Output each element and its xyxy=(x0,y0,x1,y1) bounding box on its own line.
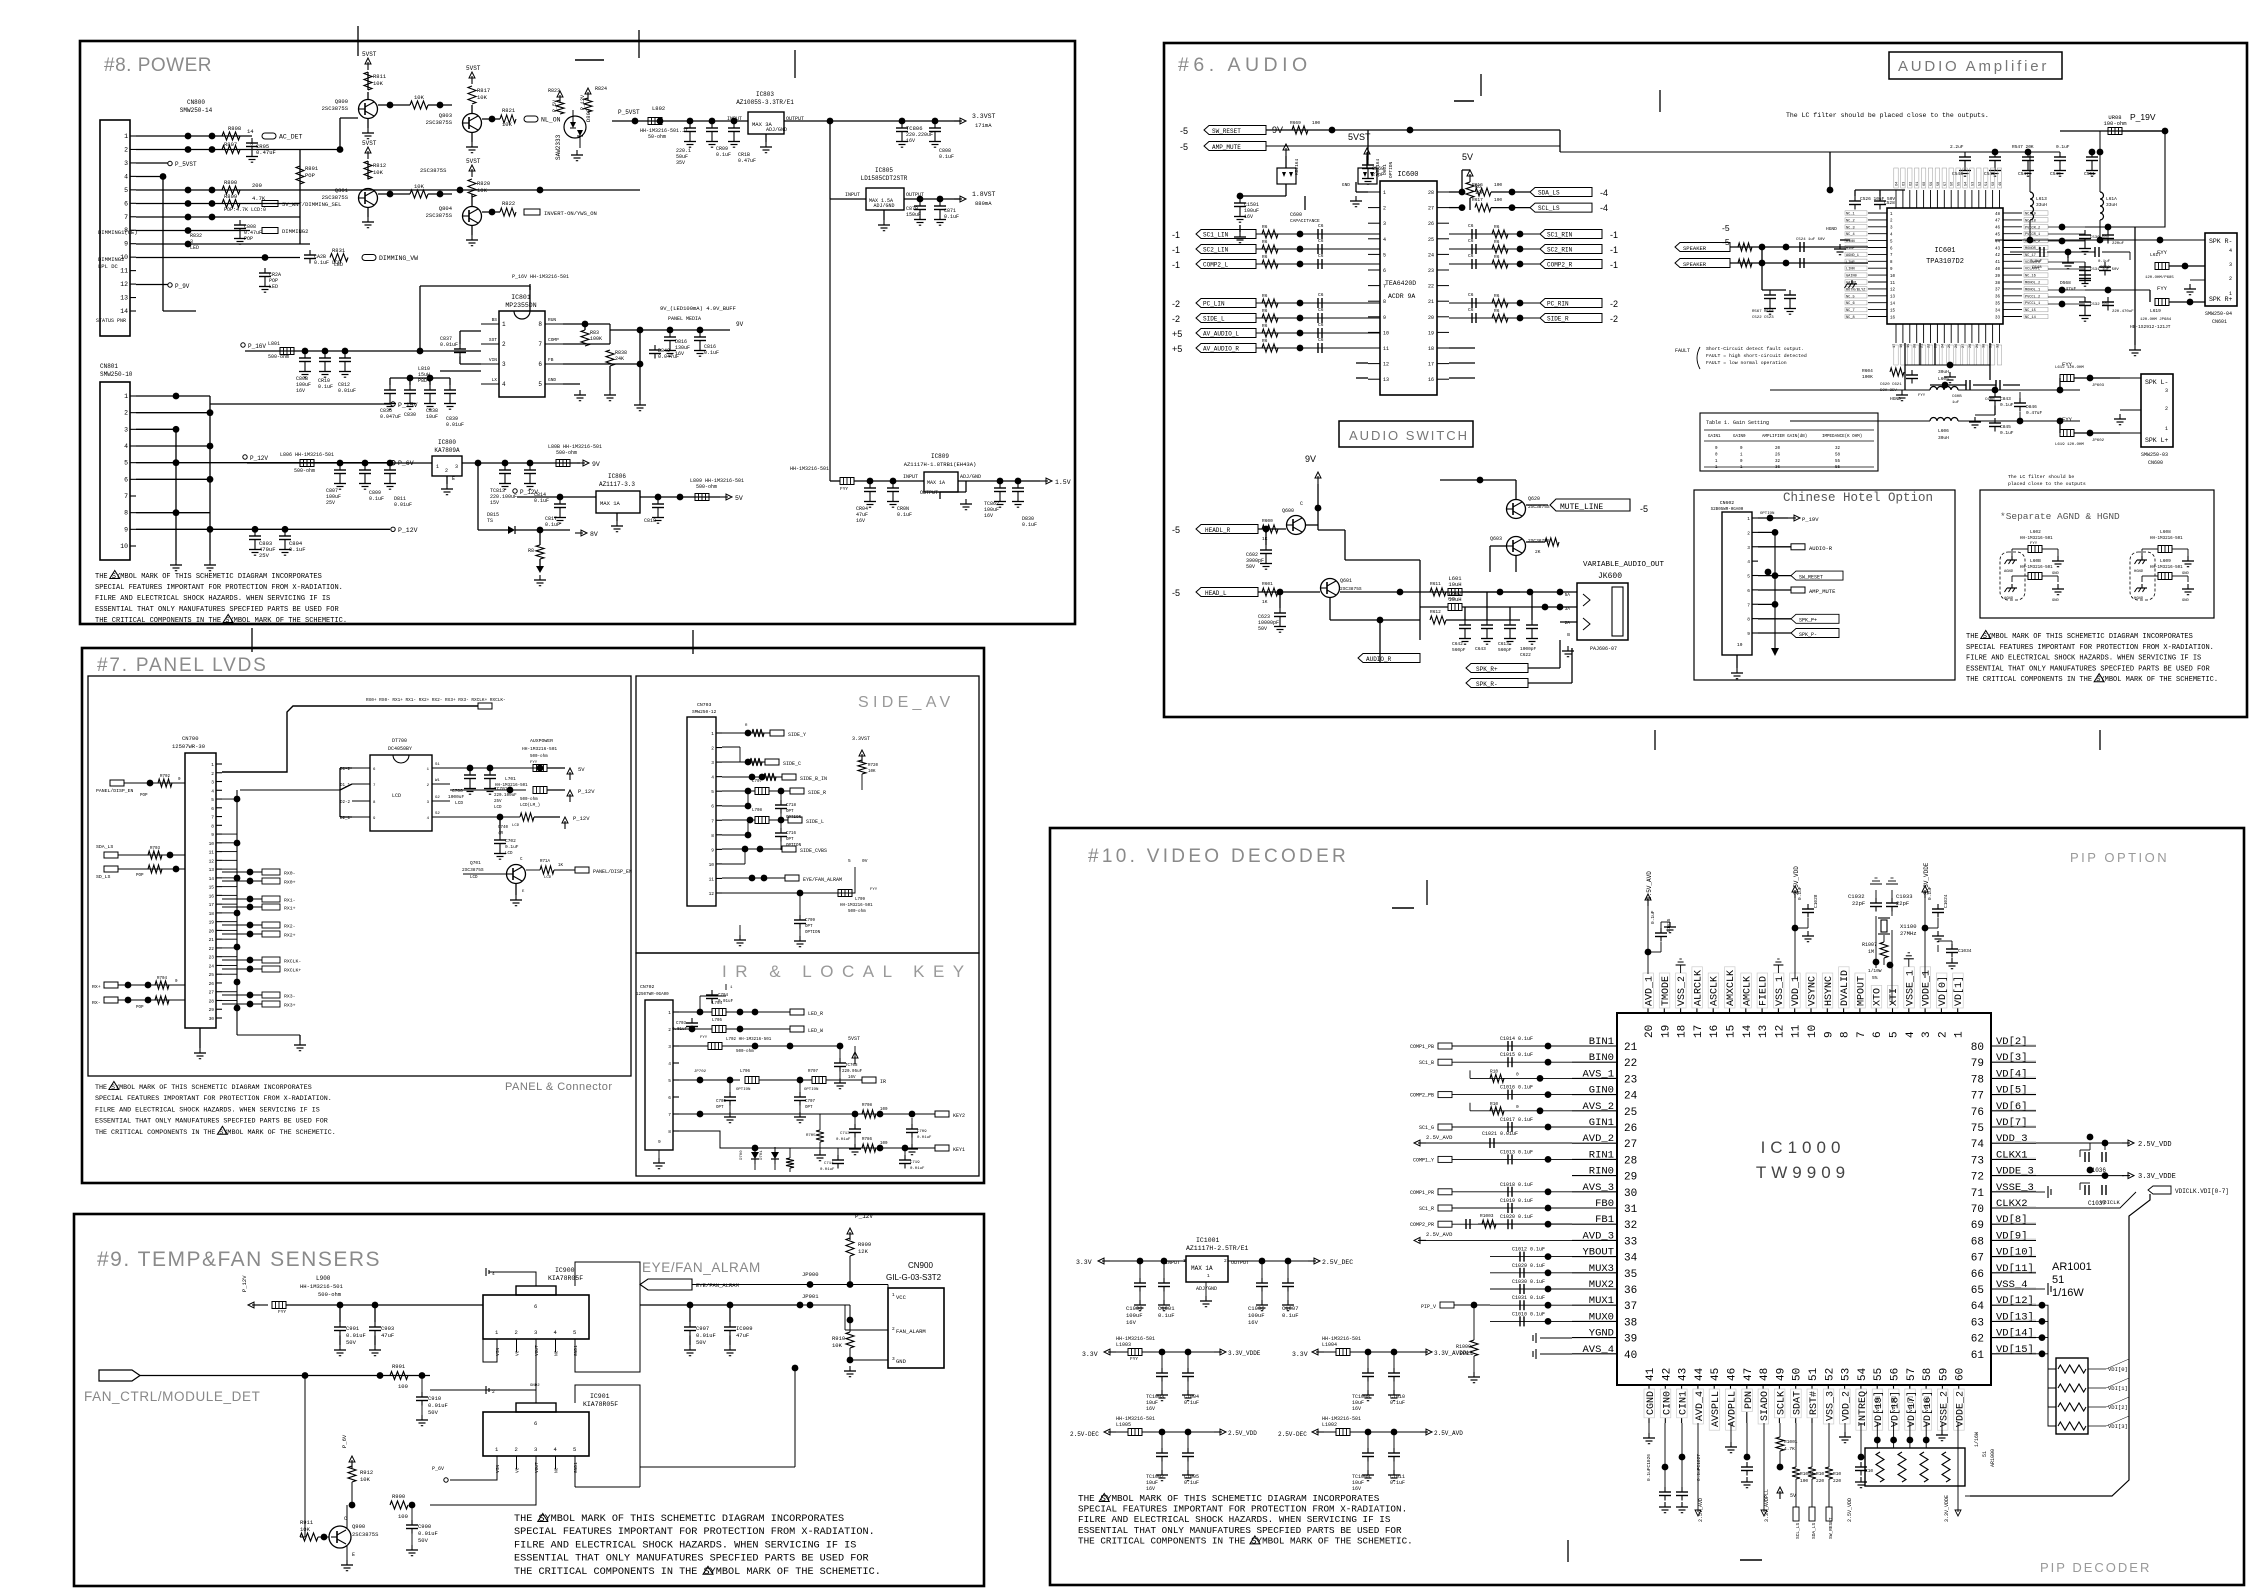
svg-text:220: 220 xyxy=(1816,1478,1824,1484)
AR1001 input wires xyxy=(2039,1302,2046,1309)
CN703 row3 SIDE_C xyxy=(722,761,765,763)
svg-text:0.1uF: 0.1uF xyxy=(1158,1312,1175,1319)
wire Q801 Q804 link xyxy=(378,193,410,195)
bottom VSS gnd xyxy=(1844,1423,1846,1432)
svg-text:VD[6]: VD[6] xyxy=(1996,1101,2028,1113)
capacitor CR2A xyxy=(264,268,266,273)
resistor between Q800 Q803 xyxy=(378,104,410,106)
svg-text:R616: R616 xyxy=(1472,182,1483,188)
svg-text:L60B: L60B xyxy=(2030,558,2041,564)
svg-text:AV_AUDIO_R: AV_AUDIO_R xyxy=(1203,346,1239,353)
svg-text:10: 10 xyxy=(1383,330,1389,336)
svg-text:C1012 0.1uF: C1012 0.1uF xyxy=(1512,1247,1545,1253)
svg-text:VOUT: VOUT xyxy=(534,1462,540,1473)
svg-text:C551: C551 xyxy=(2084,171,2095,177)
capacitor TC708 xyxy=(837,1043,844,1050)
svg-text:CIN1: CIN1 xyxy=(1679,1391,1690,1415)
wire IC1001 input xyxy=(1102,1260,1110,1262)
svg-text:VSSE_3: VSSE_3 xyxy=(1996,1182,2034,1194)
svg-text:27pF: 27pF xyxy=(1372,172,1384,178)
svg-text:8: 8 xyxy=(1840,1031,1852,1038)
svg-text:62: 62 xyxy=(1909,182,1913,186)
resistor R820 vertical xyxy=(468,179,476,197)
capacitor C808o xyxy=(934,123,936,128)
svg-text:16V: 16V xyxy=(1352,1486,1361,1492)
svg-text:PVCCL_2: PVCCL_2 xyxy=(2025,295,2040,299)
svg-text:22: 22 xyxy=(209,946,215,952)
svg-text:58: 58 xyxy=(1922,1368,1934,1381)
capacitor C709 xyxy=(799,893,801,915)
svg-text:Q603: Q603 xyxy=(1490,536,1502,542)
svg-text:5: 5 xyxy=(711,789,714,795)
svg-text:5: 5 xyxy=(124,460,128,467)
svg-text:SIDE_R: SIDE_R xyxy=(1547,316,1569,323)
svg-text:48: 48 xyxy=(1995,213,2001,217)
svg-text:71: 71 xyxy=(1971,1188,1985,1200)
svg-text:50V: 50V xyxy=(418,1537,429,1544)
svg-text:3: 3 xyxy=(711,760,714,766)
svg-text:47: 47 xyxy=(1995,220,2001,224)
svg-text:RX3+: RX3+ xyxy=(284,1003,296,1009)
svg-text:LCD: LCD xyxy=(544,876,552,880)
svg-text:AMP_MUTE: AMP_MUTE xyxy=(1809,588,1836,595)
svg-text:SD_LS: SD_LS xyxy=(96,874,111,880)
svg-text:CGND: CGND xyxy=(1646,1391,1657,1415)
svg-text:PVCCR_2: PVCCR_2 xyxy=(2025,226,2040,230)
svg-text:AVS_2: AVS_2 xyxy=(1582,1101,1614,1113)
svg-text:5: 5 xyxy=(668,1078,671,1084)
svg-text:P_19V: P_19V xyxy=(2130,112,2156,122)
svg-text:R809: R809 xyxy=(224,193,237,200)
svg-text:AGND: AGND xyxy=(2004,597,2014,601)
transistor Q801 xyxy=(359,189,378,208)
svg-text:HH-1M3216-501: HH-1M3216-501 xyxy=(790,466,829,472)
wires switch area xyxy=(1318,529,1345,531)
svg-text:24: 24 xyxy=(1428,252,1434,258)
svg-text:26: 26 xyxy=(1955,344,1959,348)
svg-text:AVS_3: AVS_3 xyxy=(1582,1182,1614,1194)
svg-text:TW9909: TW9909 xyxy=(1756,1163,1850,1182)
svg-text:38: 38 xyxy=(1624,1317,1637,1329)
svg-text:40: 40 xyxy=(1995,268,2001,272)
wires CN801 rows xyxy=(136,395,210,397)
crystal caps C1032 C1033 xyxy=(1875,898,1877,903)
svg-text:ESSENTIAL THAT ONLY MANUFATURE: ESSENTIAL THAT ONLY MANUFATURES SPECFIED… xyxy=(1078,1525,1402,1536)
svg-text:C6: C6 xyxy=(1468,253,1474,259)
svg-text:RX1-: RX1- xyxy=(284,898,296,904)
svg-text:41: 41 xyxy=(1995,261,2001,265)
svg-text:3.3V: 3.3V xyxy=(1292,1351,1308,1358)
panel #9 border xyxy=(74,1214,984,1586)
svg-text:PANEL/DISP_EN: PANEL/DISP_EN xyxy=(96,788,134,794)
svg-text:POP: POP xyxy=(136,874,144,878)
svg-text:AVD_2: AVD_2 xyxy=(1582,1133,1614,1145)
svg-text:C1028: C1028 xyxy=(1813,894,1819,908)
IC600 bottom rows xyxy=(1449,347,1475,349)
svg-text:GND: GND xyxy=(2052,599,2060,603)
svg-text:POP: POP xyxy=(140,794,148,798)
svg-text:L619: L619 xyxy=(2150,308,2161,314)
svg-text:D568: D568 xyxy=(2060,280,2071,286)
svg-text:2: 2 xyxy=(1383,206,1386,212)
svg-text:13: 13 xyxy=(209,867,215,873)
svg-text:C544: C544 xyxy=(1952,171,1963,177)
svg-text:0.1uF: 0.1uF xyxy=(2056,144,2070,150)
svg-text:R801: R801 xyxy=(305,165,319,172)
svg-text:AZ1117H-2.5TR/E1: AZ1117H-2.5TR/E1 xyxy=(1186,1245,1249,1252)
svg-text:28: 28 xyxy=(1624,1155,1637,1167)
svg-text:33: 33 xyxy=(1995,316,2001,320)
svg-text:COMP1_PR: COMP1_PR xyxy=(1410,1190,1434,1196)
svg-text:NC: NC xyxy=(554,1350,560,1356)
svg-text:10uH: 10uH xyxy=(1448,581,1461,588)
svg-text:VD[8]: VD[8] xyxy=(1996,1214,2028,1226)
IC1000 bottom pins xyxy=(1648,1385,1650,1423)
svg-text:HH-1M3216-501: HH-1M3216-501 xyxy=(2020,537,2053,541)
svg-text:OPTION: OPTION xyxy=(805,931,821,935)
svg-text:C830: C830 xyxy=(404,412,416,418)
svg-text:NC_2: NC_2 xyxy=(1846,219,1855,223)
svg-text:5VST: 5VST xyxy=(466,65,481,72)
svg-text:R612: R612 xyxy=(1430,609,1441,615)
flags RX bottom left xyxy=(104,982,118,988)
svg-text:15: 15 xyxy=(1890,309,1896,313)
svg-text:C903: C903 xyxy=(381,1325,394,1332)
svg-text:GND: GND xyxy=(1342,182,1350,188)
svg-text:JP602: JP602 xyxy=(2092,439,2105,443)
svg-text:23: 23 xyxy=(1624,1074,1637,1086)
svg-text:IC600: IC600 xyxy=(1397,171,1418,179)
inner box PANEL Connector xyxy=(88,676,631,1076)
svg-text:3: 3 xyxy=(502,361,506,368)
svg-text:JP901: JP901 xyxy=(802,1293,819,1300)
svg-text:55: 55 xyxy=(1958,182,1962,186)
svg-text:VIN: VIN xyxy=(489,357,497,363)
bead UR08 xyxy=(2108,128,2122,135)
wire P_19V rail down xyxy=(2135,131,2165,227)
svg-text:COMP2_R: COMP2_R xyxy=(1547,262,1573,269)
capacitor C700 xyxy=(469,770,471,775)
jumper JP901 xyxy=(807,1302,814,1309)
svg-text:3.3V: 3.3V xyxy=(1076,1259,1092,1266)
svg-text:C716: C716 xyxy=(786,832,797,836)
svg-text:2: 2 xyxy=(515,1329,518,1336)
svg-text:R824: R824 xyxy=(595,86,607,92)
svg-text:IMPEDANCE(K OHM): IMPEDANCE(K OHM) xyxy=(1822,434,1862,439)
capacitor CR05 xyxy=(251,138,253,143)
svg-text:43: 43 xyxy=(1995,247,2001,251)
svg-text:R669: R669 xyxy=(1290,120,1301,126)
svg-text:VD[12]: VD[12] xyxy=(1996,1295,2034,1307)
svg-text:35V: 35V xyxy=(676,160,685,166)
svg-text:0V: 0V xyxy=(862,858,868,864)
vertical taps row8 xyxy=(789,1148,791,1158)
svg-text:SPK L-: SPK L- xyxy=(2145,379,2168,386)
svg-text:0.1uFC1026: 0.1uFC1026 xyxy=(1646,1454,1652,1481)
svg-text:24: 24 xyxy=(1941,344,1945,348)
svg-text:VARIABLE_AUDIO_OUT: VARIABLE_AUDIO_OUT xyxy=(1583,561,1665,569)
svg-text:ASCLK: ASCLK xyxy=(1710,976,1721,1006)
svg-text:16V: 16V xyxy=(1146,1406,1155,1412)
svg-text:R6: R6 xyxy=(1262,338,1268,344)
svg-text:37: 37 xyxy=(1624,1301,1637,1313)
svg-text:RX2-: RX2- xyxy=(284,924,296,930)
panel #6 AUDIO border xyxy=(1164,43,2247,717)
svg-text:DIMMING2: DIMMING2 xyxy=(98,256,124,263)
svg-text:R6: R6 xyxy=(1262,323,1268,329)
svg-text:IC900: IC900 xyxy=(555,1267,575,1274)
svg-text:SPK_P+: SPK_P+ xyxy=(1799,618,1817,624)
svg-text:7: 7 xyxy=(711,818,714,824)
svg-text:*Separate AGND & HGND: *Separate AGND & HGND xyxy=(2000,511,2120,522)
svg-text:NC_1: NC_1 xyxy=(1846,213,1855,217)
IC900 pin wires xyxy=(483,1305,497,1362)
svg-text:25: 25 xyxy=(1948,344,1952,348)
wire COMP FB xyxy=(563,343,610,345)
svg-text:NC_5: NC_5 xyxy=(1846,295,1855,299)
svg-text:2SC3875S: 2SC3875S xyxy=(420,167,447,174)
svg-text:0.1uF: 0.1uF xyxy=(1022,522,1037,528)
svg-text:P_12V: P_12V xyxy=(573,815,590,822)
svg-text:8: 8 xyxy=(711,833,714,839)
svg-text:VSS_3: VSS_3 xyxy=(1825,1391,1836,1421)
resistor R817 vertical xyxy=(468,86,476,104)
svg-text:FAN_CTRL/MODULE_DET: FAN_CTRL/MODULE_DET xyxy=(84,1389,260,1404)
svg-text:C6: C6 xyxy=(1318,337,1324,343)
svg-text:VD[1]: VD[1] xyxy=(1953,976,1965,1006)
svg-text:C1034: C1034 xyxy=(1958,948,1972,954)
caps on speaker lines xyxy=(1799,242,1801,252)
svg-text:4: 4 xyxy=(1905,1031,1917,1038)
power 5VST Q800 xyxy=(367,62,369,70)
svg-text:3.3V_VDDE: 3.3V_VDDE xyxy=(1944,1495,1950,1522)
svg-text:12: 12 xyxy=(1890,289,1896,293)
svg-text:C845: C845 xyxy=(2000,424,2011,430)
svg-text:16: 16 xyxy=(1709,1025,1721,1038)
svg-text:0.1uF: 0.1uF xyxy=(2000,430,2014,436)
svg-text:50: 50 xyxy=(1992,182,1996,186)
svg-text:C900: C900 xyxy=(418,1523,431,1530)
svg-text:34: 34 xyxy=(1995,309,2001,313)
svg-text:C6: C6 xyxy=(1318,253,1324,259)
svg-text:11: 11 xyxy=(1791,1024,1803,1038)
svg-text:ESSENTIAL THAT ONLY MANUFATURE: ESSENTIAL THAT ONLY MANUFATURES SPECFIED… xyxy=(95,1118,328,1126)
svg-text:25: 25 xyxy=(209,972,215,978)
svg-text:44: 44 xyxy=(1694,1367,1706,1381)
svg-text:25V: 25V xyxy=(259,552,270,559)
diode D815 branch to 8V xyxy=(477,463,479,530)
capacitor cluster IC800 input xyxy=(337,460,344,467)
svg-text:EYE/FAN_ALRAM: EYE/FAN_ALRAM xyxy=(642,1260,761,1275)
svg-text:KEY1: KEY1 xyxy=(953,1147,965,1153)
svg-text:FAULT = low normal operation: FAULT = low normal operation xyxy=(1706,360,1787,366)
capacitor cluster IC801 input xyxy=(302,348,309,355)
capacitor C900 xyxy=(411,1505,413,1520)
svg-text:2.5V_AVD: 2.5V_AVD xyxy=(1426,1134,1453,1141)
svg-text:9: 9 xyxy=(211,832,214,838)
svg-text:4: 4 xyxy=(668,1061,671,1067)
svg-text:L707: L707 xyxy=(752,780,763,784)
svg-text:VD[0]: VD[0] xyxy=(1937,976,1949,1006)
svg-text:29: 29 xyxy=(1624,1172,1637,1184)
svg-text:6: 6 xyxy=(534,1303,537,1310)
svg-text:0.1uF: 0.1uF xyxy=(1797,886,1803,900)
resistor R1007 xyxy=(1880,942,1888,958)
svg-text:0.01uF: 0.01uF xyxy=(820,1168,835,1172)
svg-text:W1: W1 xyxy=(435,779,440,783)
VSS_4 gnd tick xyxy=(2036,1288,2045,1290)
svg-text:C709: C709 xyxy=(917,1130,927,1134)
svg-text:FIELD: FIELD xyxy=(1759,976,1770,1006)
svg-text:COMP: COMP xyxy=(548,337,559,343)
svg-text:L613: L613 xyxy=(2036,196,2047,202)
svg-text:0.01uF: 0.01uF xyxy=(672,1028,688,1032)
svg-text:10K: 10K xyxy=(360,1476,371,1483)
svg-text:0.01uF: 0.01uF xyxy=(428,1402,448,1409)
IC600 right signal flags xyxy=(1449,233,1540,235)
svg-text:1.8VST: 1.8VST xyxy=(972,191,996,198)
resistor R831 xyxy=(330,254,348,262)
svg-text:SPK R-: SPK R- xyxy=(2209,238,2232,245)
svg-text:AUXPOWER: AUXPOWER xyxy=(530,738,553,744)
svg-text:76: 76 xyxy=(1971,1107,1984,1119)
svg-text:Q800: Q800 xyxy=(335,98,348,105)
svg-text:R611: R611 xyxy=(1430,581,1441,587)
wire Q800 collector xyxy=(367,72,369,90)
svg-text:C1030 0.1uF: C1030 0.1uF xyxy=(1512,1279,1545,1285)
svg-text:GAIN0: GAIN0 xyxy=(1846,275,1857,279)
svg-text:AVS_4: AVS_4 xyxy=(1582,1344,1614,1356)
svg-text:VDI[6]: VDI[6] xyxy=(1891,1396,1897,1412)
svg-text:THE SYMBOL MARK OF THIS SC: THE SYMBOL MARK OF THIS SCHEMETIC DIAGRA… xyxy=(95,1084,312,1092)
capacitor C836 C830 C838 C839 xyxy=(389,385,391,390)
svg-text:CN800: CN800 xyxy=(187,99,205,106)
svg-text:L801: L801 xyxy=(268,341,280,347)
svg-text:3.3V_VDDE: 3.3V_VDDE xyxy=(1228,1350,1261,1357)
svg-text:IR: IR xyxy=(880,1079,886,1085)
resistor R612 xyxy=(1430,616,1446,624)
svg-text:27: 27 xyxy=(209,990,215,996)
svg-text:12507WR-0GA00: 12507WR-0GA00 xyxy=(636,993,669,997)
svg-text:-5: -5 xyxy=(1180,142,1188,152)
label 1.8VST output xyxy=(954,198,962,200)
svg-text:50V: 50V xyxy=(1246,564,1255,570)
svg-text:9: 9 xyxy=(1747,631,1750,637)
capacitor C718 xyxy=(780,791,782,800)
svg-text:SC1_RIN: SC1_RIN xyxy=(1547,232,1573,239)
svg-text:+5: +5 xyxy=(1172,344,1182,354)
svg-text:0.47uF: 0.47uF xyxy=(2026,410,2043,416)
svg-text:SMW250-14: SMW250-14 xyxy=(180,107,213,114)
svg-text:5VST: 5VST xyxy=(848,1036,860,1042)
row8 KEY1 xyxy=(679,1131,935,1148)
svg-text:2: 2 xyxy=(515,1446,518,1453)
svg-text:Chinese Hotel Option: Chinese Hotel Option xyxy=(1783,491,1933,505)
svg-text:JP900: JP900 xyxy=(802,1271,819,1278)
svg-text:VD[11]: VD[11] xyxy=(1996,1263,2034,1275)
VSSE_3 gnd xyxy=(2036,1191,2045,1193)
svg-text:GAIN0: GAIN0 xyxy=(1733,435,1746,439)
ferrite row 2.5V_AVD xyxy=(1316,1431,1324,1433)
svg-text:P_12V: P_12V xyxy=(250,455,268,462)
transistor Q701 xyxy=(507,865,526,884)
svg-text:500-ohm: 500-ohm xyxy=(848,909,866,914)
svg-text:12K: 12K xyxy=(858,1248,869,1255)
svg-text:9: 9 xyxy=(1383,315,1386,321)
svg-text:3: 3 xyxy=(124,160,128,167)
speaker L filter xyxy=(1904,365,1906,390)
FB1 row resistor xyxy=(1478,1223,1572,1225)
svg-text:61: 61 xyxy=(1916,182,1920,186)
svg-text:64: 64 xyxy=(1896,182,1900,186)
svg-text:30: 30 xyxy=(1983,344,1987,348)
svg-text:SCLK: SCLK xyxy=(1776,1391,1787,1415)
svg-text:C1031 0.1uF: C1031 0.1uF xyxy=(1512,1295,1545,1301)
svg-text:SC1_LIN: SC1_LIN xyxy=(1203,232,1229,239)
wire IC806 output xyxy=(640,496,720,498)
flag 5V_WNT/DIMMING_SEL xyxy=(262,201,278,207)
svg-text:PIP_V: PIP_V xyxy=(1421,1304,1436,1310)
svg-text:51: 51 xyxy=(1982,1451,1988,1457)
svg-text:SPK_R-: SPK_R- xyxy=(1476,681,1498,688)
svg-text:30uH: 30uH xyxy=(1938,369,1949,375)
capacitor C907 IC909 xyxy=(689,1305,691,1322)
svg-text:0.47uF: 0.47uF xyxy=(2060,286,2077,292)
svg-text:1/10W: 1/10W xyxy=(1868,968,1882,974)
svg-text:CN703: CN703 xyxy=(697,702,712,708)
svg-text:NC_4: NC_4 xyxy=(1846,233,1855,237)
flag DIMMING2 xyxy=(136,230,250,232)
svg-text:11: 11 xyxy=(1383,346,1389,352)
svg-text:INPUT: INPUT xyxy=(903,474,918,480)
svg-text:SMW250-04: SMW250-04 xyxy=(2205,311,2232,317)
capacitor C600 xyxy=(1304,196,1306,210)
svg-text:120-OHM/P685: 120-OHM/P685 xyxy=(2145,275,2174,280)
svg-text:3: 3 xyxy=(668,1044,671,1050)
svg-text:POP: POP xyxy=(136,1006,144,1010)
svg-text:3: 3 xyxy=(1383,221,1386,227)
svg-text:19: 19 xyxy=(1428,330,1434,336)
wire SPK R plus xyxy=(2135,289,2150,291)
svg-text:B: B xyxy=(1567,632,1570,638)
svg-text:STATUS PNR: STATUS PNR xyxy=(96,318,126,324)
capacitor TC806 xyxy=(901,123,903,128)
svg-text:L1005: L1005 xyxy=(1116,1422,1131,1428)
svg-text:16V: 16V xyxy=(1244,214,1253,220)
svg-text:19: 19 xyxy=(209,920,215,926)
svg-text:500-ohm: 500-ohm xyxy=(736,1049,754,1054)
svg-text:GND: GND xyxy=(2182,599,2190,603)
svg-text:0.1uF: 0.1uF xyxy=(369,496,384,502)
svg-text:0.1uF: 0.1uF xyxy=(1650,910,1656,924)
svg-text:6: 6 xyxy=(1747,588,1750,594)
svg-text:FYY: FYY xyxy=(1130,1356,1138,1362)
resistor R1009 xyxy=(1470,1340,1478,1356)
svg-text:HB-1S2912-121JT: HB-1S2912-121JT xyxy=(2130,324,2171,330)
svg-text:IC806: IC806 xyxy=(608,473,626,480)
svg-text:INTREQ: INTREQ xyxy=(1858,1391,1869,1427)
svg-text:VDD_1: VDD_1 xyxy=(1791,976,1802,1006)
svg-text:AUDIO SWITCH: AUDIO SWITCH xyxy=(1349,428,1469,443)
svg-text:E: E xyxy=(452,476,455,482)
svg-text:C1001: C1001 xyxy=(1158,1305,1175,1312)
svg-text:VD[13]: VD[13] xyxy=(1996,1311,2034,1323)
svg-text:6: 6 xyxy=(1872,1031,1884,1038)
svg-text:4: 4 xyxy=(711,775,714,781)
svg-text:SPK L+: SPK L+ xyxy=(2145,437,2169,444)
svg-text:45: 45 xyxy=(1995,234,2001,238)
svg-text:VSSE_2: VSSE_2 xyxy=(1939,1391,1950,1427)
